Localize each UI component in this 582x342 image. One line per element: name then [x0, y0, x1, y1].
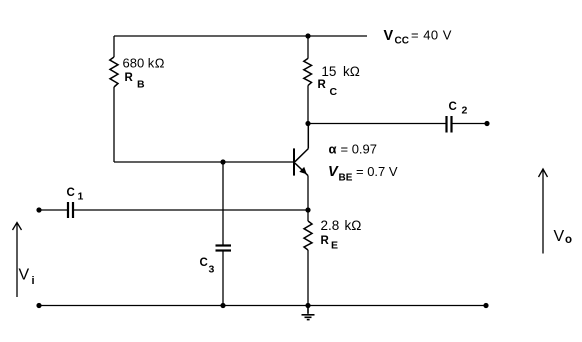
svg-text:R: R	[125, 72, 134, 84]
node collector junction	[305, 121, 310, 126]
wire RB bottom lead	[113, 87, 115, 162]
node emitter junction	[305, 207, 310, 212]
svg-text:CC: CC	[395, 36, 409, 47]
wire RC top lead	[307, 36, 309, 59]
resistor RB	[110, 57, 118, 87]
wire RC bottom lead	[307, 86, 309, 124]
resistor RC	[304, 58, 312, 85]
capacitor C2	[447, 116, 452, 133]
arrow Vo output	[539, 169, 548, 254]
svg-text:R: R	[318, 79, 327, 91]
svg-text:V: V	[384, 28, 394, 44]
svg-text:680 k: 680 k	[123, 56, 155, 71]
svg-text:BE: BE	[339, 173, 353, 184]
wire emitter lead	[307, 176, 309, 210]
svg-text:E: E	[331, 240, 338, 252]
wire C3 top lead	[222, 162, 224, 245]
node base/C3 junction	[220, 159, 225, 164]
arrow Vi input	[13, 223, 22, 298]
wire base rail	[114, 161, 294, 163]
ground	[302, 306, 315, 320]
svg-text:C: C	[449, 101, 457, 113]
svg-text:= 0.7 V: = 0.7 V	[356, 164, 398, 179]
wire C2 to output terminal	[453, 123, 488, 125]
svg-text:2.8: 2.8	[321, 218, 340, 233]
node top rail / RC junction	[305, 33, 310, 38]
svg-text:= 40 V: = 40 V	[411, 28, 452, 43]
svg-text:i: i	[32, 275, 35, 287]
svg-text:o: o	[565, 234, 572, 246]
wire RE bottom lead	[307, 250, 309, 306]
svg-text:Ω: Ω	[155, 56, 165, 71]
svg-text:V: V	[19, 266, 30, 283]
svg-text:15: 15	[321, 64, 336, 79]
svg-text:V: V	[554, 228, 565, 245]
wire bottom rail	[39, 305, 486, 307]
svg-text:C: C	[330, 86, 338, 98]
node emitter/ground junction	[305, 303, 310, 308]
wire RE top lead	[307, 210, 309, 221]
node C3 bottom junction	[220, 303, 225, 308]
svg-text:C: C	[200, 257, 208, 269]
svg-text:C: C	[67, 187, 75, 199]
wire top supply rail	[114, 35, 367, 37]
transistor Q1	[294, 124, 308, 176]
svg-text:1: 1	[78, 191, 84, 203]
capacitor C1	[68, 202, 73, 218]
svg-text:= 0.97: = 0.97	[341, 142, 378, 157]
wire RB top lead	[113, 36, 115, 57]
svg-text:kΩ: kΩ	[345, 218, 362, 233]
wire collector to C2	[308, 123, 446, 125]
wire C3 bottom lead	[222, 252, 224, 306]
resistor RE	[304, 221, 312, 250]
svg-text:2: 2	[462, 105, 468, 117]
node bottom right terminal	[483, 303, 488, 308]
svg-text:3: 3	[209, 264, 215, 276]
svg-text:R: R	[321, 235, 330, 247]
capacitor C3	[216, 246, 232, 251]
svg-text:kΩ: kΩ	[343, 64, 360, 79]
svg-text:B: B	[137, 78, 145, 90]
node bottom left terminal	[36, 303, 41, 308]
wire C1 to emitter node	[74, 209, 308, 211]
node output terminal	[484, 121, 489, 126]
svg-text:V: V	[328, 164, 339, 180]
svg-text:α: α	[329, 141, 337, 156]
wire input to C1	[39, 209, 67, 211]
node input terminal	[36, 207, 41, 212]
